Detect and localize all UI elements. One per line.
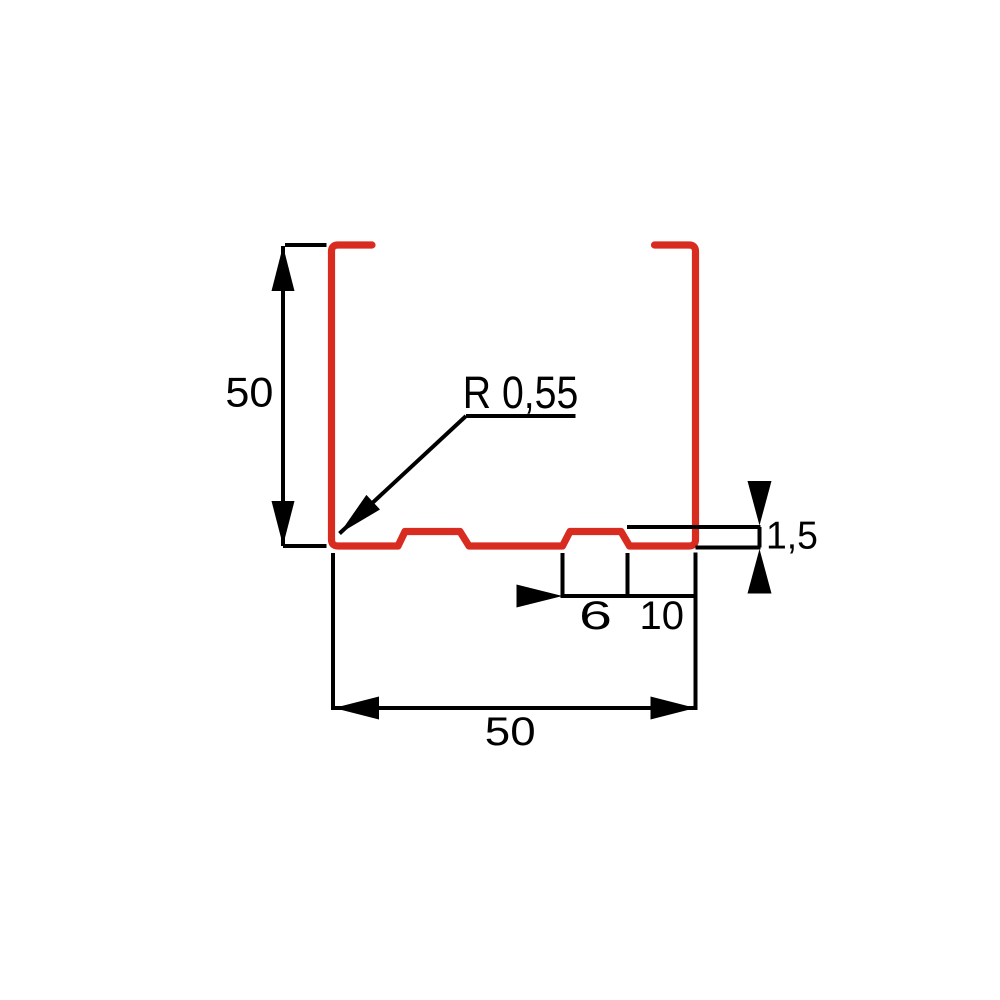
- left height dimension 50: bottom arrowhead: [272, 501, 295, 546]
- thickness dimension 1,5: value label: [766, 515, 818, 558]
- left height dimension 50: value label: [225, 369, 273, 416]
- rib dimensions: arrowhead pointing right: [517, 585, 563, 608]
- rib dimension: value label 10: [640, 594, 685, 638]
- thickness dimension 1,5: vertical connector: [758, 527, 762, 548]
- left height dimension 50: vertical dimension line: [281, 246, 285, 546]
- left height dimension 50: top extension line: [285, 243, 327, 247]
- bottom width dimension 50: right extension line (shared with rib dims): [694, 553, 698, 711]
- svg-text:10: 10: [640, 594, 685, 638]
- rib dimensions 6 and 10: left extension line: [561, 553, 565, 598]
- thickness dimension 1,5: upper arrowhead: [748, 481, 772, 526]
- C-profile cross-section outline (red): [332, 245, 696, 546]
- rib dimensions 6 and 10: dimension line: [563, 594, 696, 598]
- radius leader R 0,55: slanted leader line: [340, 416, 467, 534]
- bottom width dimension 50: left arrowhead: [334, 697, 379, 720]
- svg-text:R 0,55: R 0,55: [463, 367, 579, 418]
- left height dimension 50: bottom extension line: [283, 544, 327, 548]
- thickness dimension 1,5: lower arrowhead: [748, 549, 772, 594]
- rib dimension: value label 6: [579, 594, 612, 638]
- bottom width dimension 50: right arrowhead: [651, 697, 696, 720]
- bottom width dimension 50: left extension line: [331, 553, 335, 710]
- thickness dimension 1,5: bottom extent line: [696, 546, 761, 550]
- rib dimensions 6 and 10: middle extension line: [626, 553, 630, 598]
- bottom width dimension 50: value label: [485, 710, 536, 754]
- svg-text:6: 6: [579, 594, 612, 638]
- left height dimension 50: top arrowhead: [272, 246, 295, 291]
- svg-text:50: 50: [485, 710, 536, 754]
- thickness dimension 1,5: top extent line: [627, 525, 761, 529]
- svg-text:1,5: 1,5: [766, 515, 818, 558]
- radius leader R 0,55: value label: [463, 367, 579, 418]
- svg-text:50: 50: [225, 369, 273, 416]
- bottom width dimension 50: dimension line: [334, 706, 696, 710]
- radius leader R 0,55: horizontal shelf line: [466, 414, 576, 418]
- radius leader R 0,55: arrowhead: [340, 495, 381, 534]
